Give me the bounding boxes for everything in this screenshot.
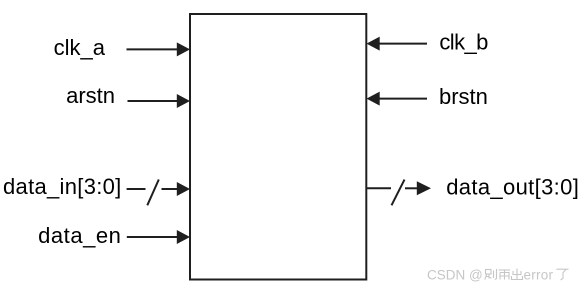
svg-text:clk_a: clk_a [54,35,106,60]
svg-text:data_en: data_en [38,223,121,248]
svg-text:data_out[3:0]: data_out[3:0] [446,174,579,199]
svg-text:data_in[3:0]: data_in[3:0] [3,174,122,199]
svg-text:brstn: brstn [439,84,488,109]
svg-text:CSDN @: CSDN @ [427,267,483,282]
svg-text:clk_b: clk_b [439,30,488,55]
svg-text:error: error [524,267,554,282]
svg-text:arstn: arstn [66,83,115,108]
